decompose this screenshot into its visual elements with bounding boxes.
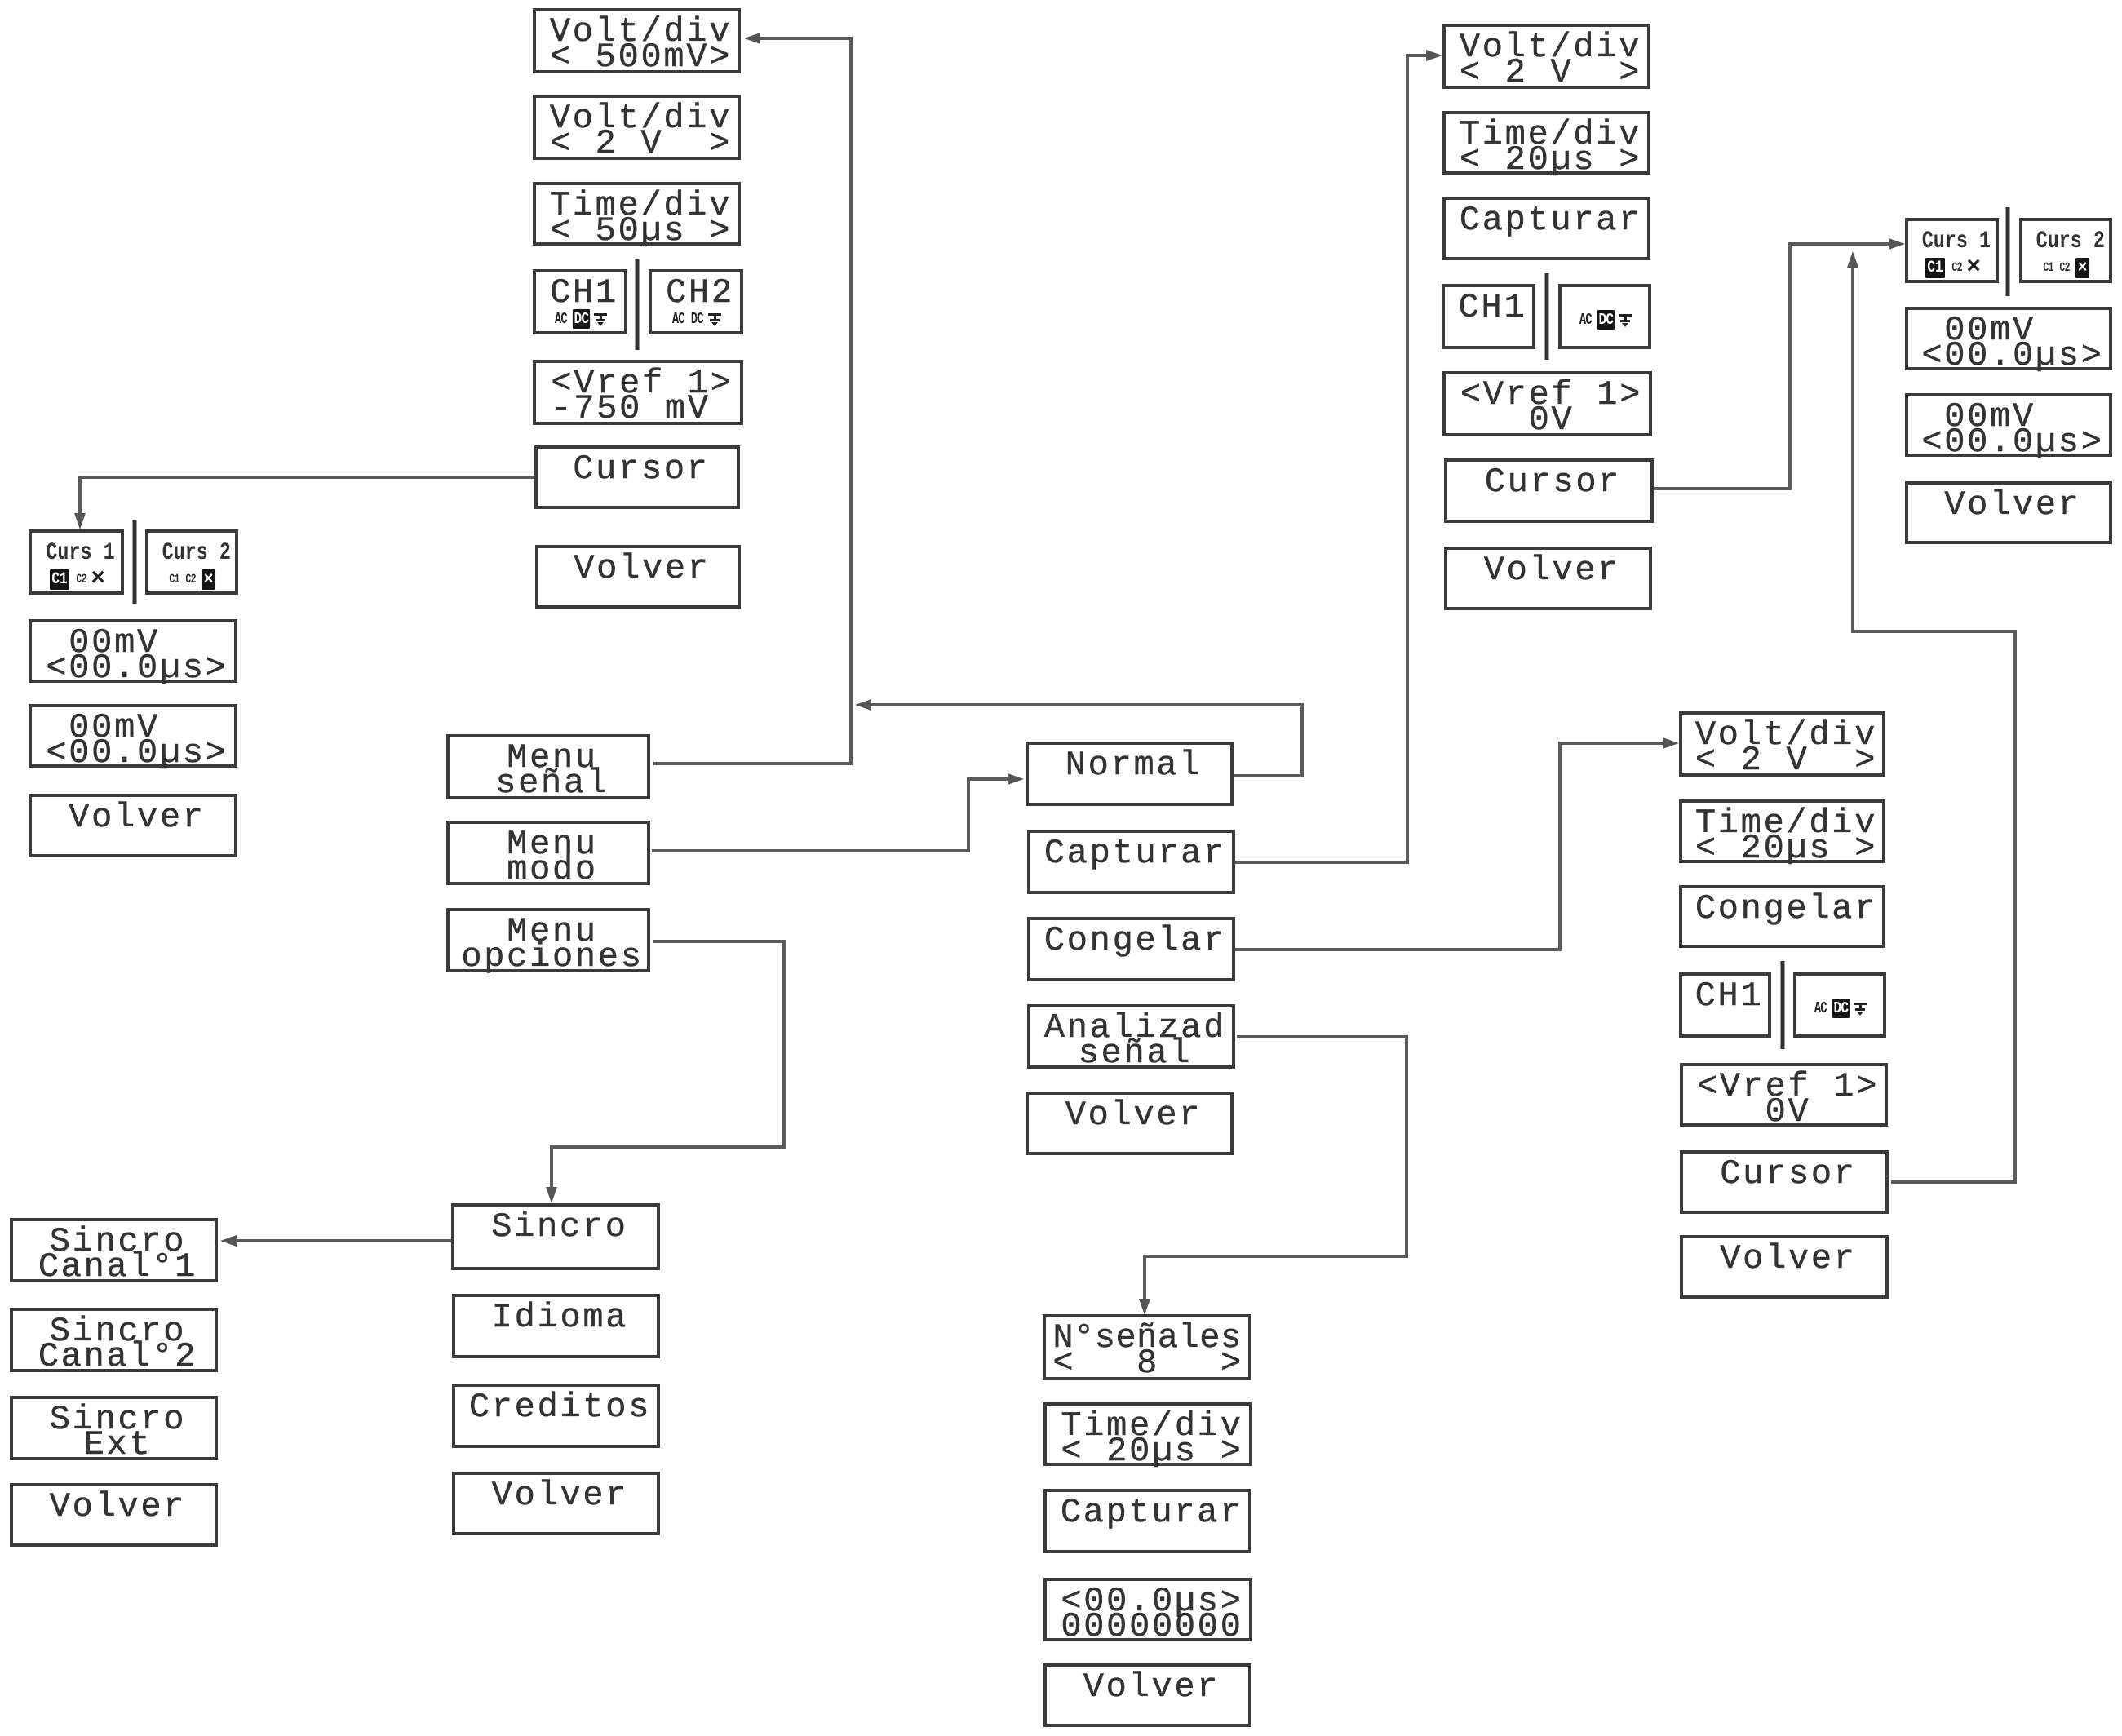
- box sext: [10, 1396, 218, 1460]
- box curs1f: [1905, 218, 1999, 283]
- box cursord: [1444, 458, 1654, 523]
- wire Analizad senal to N senales: [1139, 1037, 1407, 1315]
- separator bars between paired buttons: [636, 259, 640, 350]
- box mv2a: [29, 704, 237, 768]
- box ch1e: [1679, 972, 1771, 1038]
- box volverd: [1444, 547, 1652, 610]
- box volt500: [533, 8, 741, 73]
- wire Capturar to Volt/div 2V: [1235, 50, 1442, 862]
- box acdcd: [1558, 284, 1651, 349]
- box scanal2: [10, 1308, 218, 1372]
- box curs2a: [145, 529, 238, 595]
- box time20d: [1442, 111, 1650, 175]
- box ch1b: [533, 269, 627, 334]
- box creditos: [452, 1384, 660, 1448]
- box analizad: [1027, 1004, 1235, 1069]
- box volvern: [1026, 1092, 1234, 1155]
- box vrefd: [1442, 371, 1652, 436]
- box volverf: [1905, 481, 2112, 544]
- box volt2b: [533, 95, 741, 160]
- box capturarn: [1027, 830, 1235, 894]
- box menusenal: [446, 734, 650, 799]
- wire Menu senal to Volt/div 500mV: [653, 33, 851, 764]
- wire Menu modo to Normal: [652, 773, 1024, 851]
- box mv2f: [1905, 393, 2112, 457]
- box volvert: [452, 1472, 660, 1535]
- box scanal1: [10, 1218, 218, 1282]
- box sincro: [451, 1203, 660, 1270]
- wire Cursor congelar to Curs 1 up: [1847, 251, 2015, 1182]
- wire Sincro to Sincro Canal 1: [220, 1235, 451, 1247]
- box nsenales: [1043, 1314, 1251, 1380]
- box volverp: [1043, 1663, 1251, 1727]
- box vrefb: [533, 360, 743, 425]
- box time20e: [1679, 799, 1885, 863]
- box ms00p: [1043, 1578, 1252, 1641]
- box volverb: [535, 545, 741, 609]
- box vrefe: [1680, 1063, 1888, 1127]
- box volt2d: [1442, 24, 1650, 89]
- box mv1f: [1905, 307, 2112, 370]
- box congelarn: [1027, 917, 1235, 981]
- box congelare: [1679, 885, 1885, 948]
- box curs2f: [2019, 218, 2112, 283]
- box volvere: [1680, 1235, 1889, 1299]
- wire Congelar to Volt/div 2V right: [1235, 737, 1679, 950]
- wire Cursor to Curs 1 right: [1654, 238, 1905, 489]
- box mv1a: [29, 619, 237, 683]
- box acdce: [1793, 972, 1886, 1038]
- box capturard: [1442, 197, 1650, 260]
- box ch1d: [1442, 284, 1535, 349]
- box volvers: [10, 1483, 218, 1547]
- box cursorb: [534, 445, 740, 509]
- box ch2b: [649, 269, 743, 334]
- wire Menu opciones to Sincro: [546, 941, 784, 1203]
- box idioma: [452, 1294, 660, 1358]
- box menumodo: [446, 821, 650, 885]
- box time50: [533, 182, 741, 246]
- box menuopc: [446, 908, 650, 972]
- box cursore: [1680, 1150, 1889, 1214]
- box curs1a: [29, 529, 124, 595]
- box capturarp: [1043, 1489, 1251, 1553]
- box normal: [1026, 742, 1234, 806]
- wire Cursor to Curs 1 left: [74, 477, 536, 529]
- box volt2e: [1679, 711, 1885, 777]
- box time20p: [1043, 1402, 1252, 1466]
- box volvera: [29, 794, 237, 857]
- wire Normal return to menu junction: [855, 699, 1302, 776]
